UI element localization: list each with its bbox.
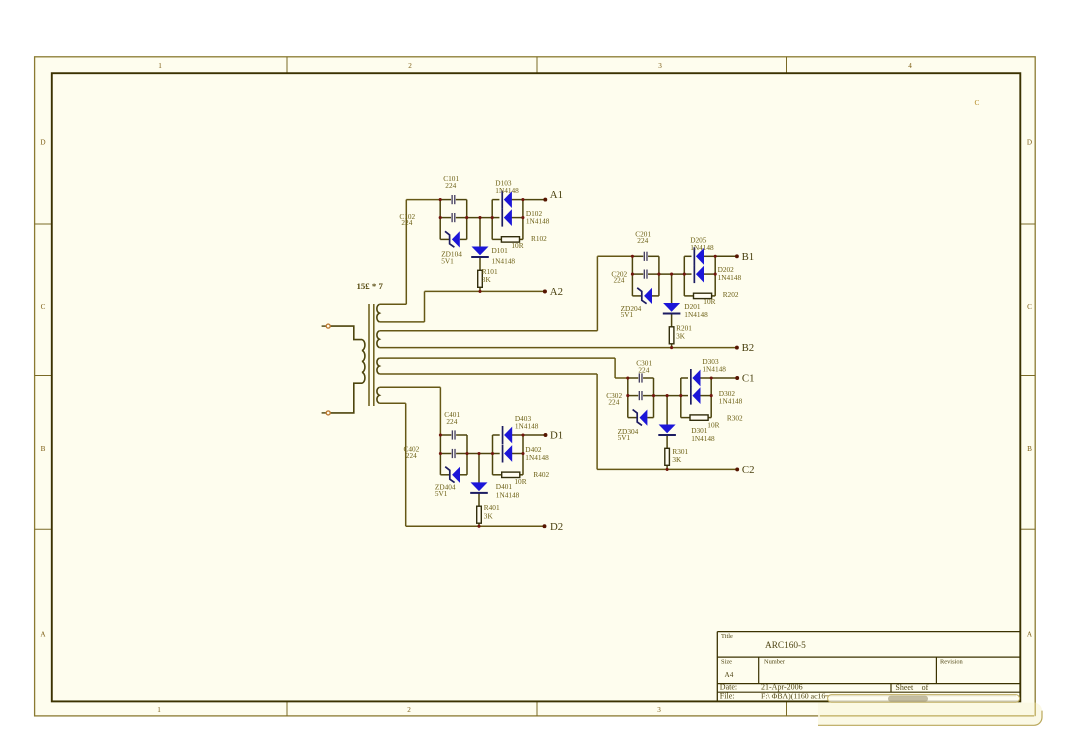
svg-text:10R: 10R	[514, 477, 526, 486]
svg-text:1N4148: 1N4148	[492, 256, 516, 265]
svg-text:224: 224	[638, 365, 649, 374]
svg-text:D2: D2	[550, 521, 563, 533]
svg-text:R402: R402	[533, 470, 549, 479]
svg-text:1N4148: 1N4148	[691, 434, 715, 443]
svg-text:ARC160-5: ARC160-5	[765, 641, 806, 651]
svg-text:2: 2	[407, 706, 411, 714]
svg-text:C: C	[1027, 303, 1032, 311]
svg-text:5V1: 5V1	[618, 433, 631, 442]
svg-text:15£ * 7: 15£ * 7	[357, 281, 384, 291]
svg-text:D101: D101	[492, 246, 509, 255]
svg-text:3: 3	[658, 62, 662, 70]
svg-text:B2: B2	[742, 342, 755, 354]
svg-text:D1: D1	[550, 430, 563, 442]
svg-text:3K: 3K	[676, 332, 686, 341]
svg-text:A: A	[1027, 631, 1033, 639]
svg-text:C: C	[41, 303, 46, 311]
svg-text:1N4148: 1N4148	[515, 422, 539, 431]
svg-text:1N4148: 1N4148	[526, 217, 550, 226]
svg-text:224: 224	[446, 417, 457, 426]
svg-text:Number: Number	[764, 659, 786, 666]
svg-text:224: 224	[637, 236, 648, 245]
svg-text:224: 224	[401, 218, 412, 227]
svg-text:Date:: Date:	[720, 683, 737, 692]
svg-text:B1: B1	[742, 251, 755, 263]
svg-text:3: 3	[657, 706, 661, 714]
svg-text:5V1: 5V1	[441, 257, 454, 266]
svg-text:10R: 10R	[511, 241, 523, 250]
svg-text:5V1: 5V1	[621, 310, 634, 319]
svg-text:R102: R102	[531, 234, 547, 243]
svg-text:1N4148: 1N4148	[495, 186, 519, 195]
svg-text:2: 2	[408, 62, 412, 70]
svg-text:21-Apr-2006: 21-Apr-2006	[761, 683, 803, 692]
svg-text:C2: C2	[742, 464, 755, 476]
svg-text:4: 4	[908, 62, 912, 70]
svg-text:A4: A4	[725, 671, 734, 679]
svg-text:File:: File:	[720, 692, 735, 701]
svg-text:1N4148: 1N4148	[719, 397, 743, 406]
svg-text:3K: 3K	[484, 511, 494, 520]
svg-text:A: A	[40, 631, 46, 639]
svg-text:1N4148: 1N4148	[690, 243, 714, 252]
svg-text:1N4148: 1N4148	[684, 310, 708, 319]
svg-text:Title: Title	[721, 633, 733, 640]
svg-text:D: D	[40, 139, 45, 147]
svg-text:B: B	[1027, 445, 1032, 453]
svg-text:Size: Size	[721, 659, 732, 666]
svg-text:A2: A2	[550, 286, 563, 298]
svg-text:1N4148: 1N4148	[496, 490, 520, 499]
svg-text:224: 224	[406, 451, 417, 460]
svg-text:C: C	[975, 98, 980, 107]
svg-text:224: 224	[608, 398, 619, 407]
svg-text:1N4148: 1N4148	[525, 453, 549, 462]
svg-text:1: 1	[157, 706, 161, 714]
svg-text:R202: R202	[723, 290, 739, 299]
svg-text:1N4148: 1N4148	[702, 365, 726, 374]
svg-text:3K: 3K	[482, 275, 492, 284]
svg-text:C1: C1	[742, 373, 755, 385]
svg-text:D: D	[1027, 139, 1032, 147]
svg-text:F:\ ΦΒΛ)(1160 ac16: F:\ ΦΒΛ)(1160 ac16	[761, 692, 825, 701]
svg-text:10R: 10R	[707, 420, 719, 429]
svg-text:1: 1	[158, 62, 162, 70]
svg-text:A1: A1	[550, 189, 563, 201]
svg-text:3K: 3K	[672, 455, 682, 464]
svg-text:1N4148: 1N4148	[718, 273, 742, 282]
svg-text:B: B	[41, 445, 46, 453]
svg-text:Revision: Revision	[940, 659, 964, 666]
svg-text:224: 224	[445, 181, 456, 190]
svg-text:10R: 10R	[703, 297, 715, 306]
svg-text:R302: R302	[727, 413, 743, 422]
svg-text:of: of	[922, 683, 929, 692]
svg-text:224: 224	[614, 276, 625, 285]
svg-text:Sheet: Sheet	[895, 683, 914, 692]
svg-text:5V1: 5V1	[435, 489, 448, 498]
